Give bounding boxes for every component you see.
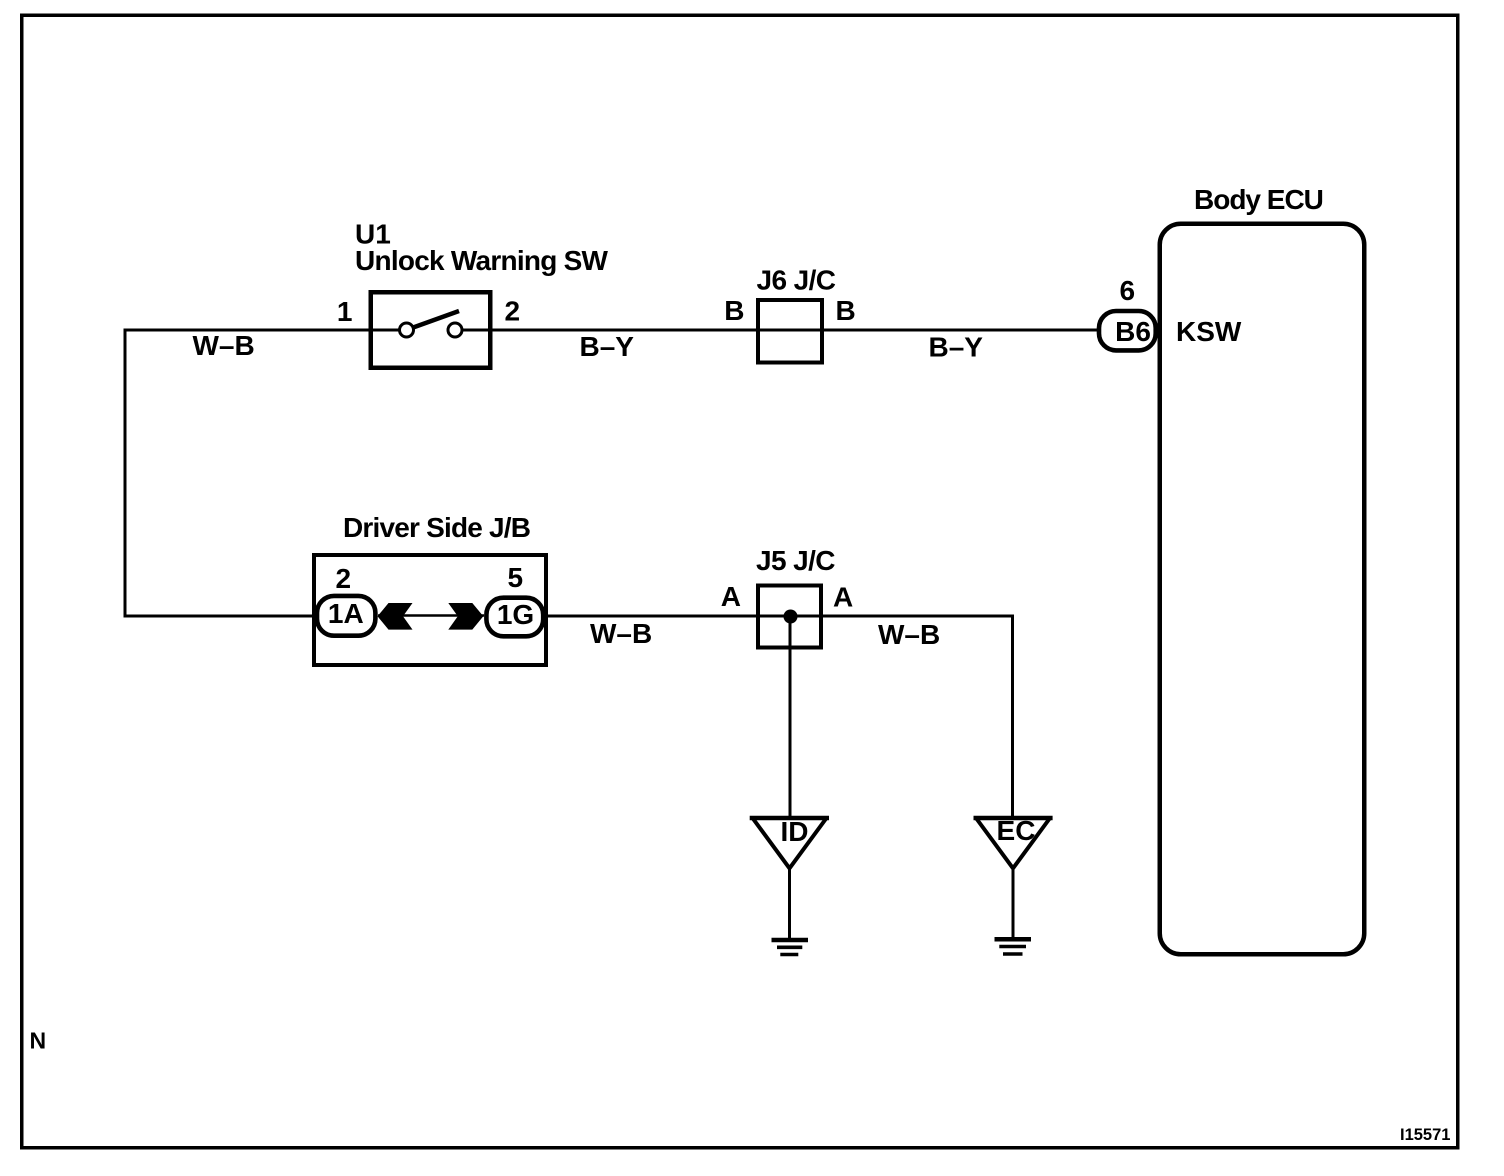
svg-text:EC: EC	[997, 815, 1036, 846]
svg-text:A: A	[721, 581, 741, 612]
svg-text:J5 J/C: J5 J/C	[756, 545, 835, 576]
svg-text:1A: 1A	[328, 598, 364, 629]
svg-text:B–Y: B–Y	[929, 332, 984, 363]
svg-text:I15571: I15571	[1400, 1126, 1450, 1144]
svg-text:Body ECU: Body ECU	[1194, 184, 1323, 215]
svg-text:A: A	[833, 582, 853, 613]
svg-text:KSW: KSW	[1176, 316, 1242, 347]
svg-text:2: 2	[336, 563, 352, 594]
svg-text:B: B	[836, 295, 856, 326]
svg-text:Driver Side J/B: Driver Side J/B	[343, 512, 530, 543]
svg-text:1: 1	[337, 296, 353, 327]
svg-text:N: N	[30, 1028, 47, 1054]
svg-text:1G: 1G	[497, 599, 534, 630]
svg-text:B: B	[724, 295, 744, 326]
svg-text:2: 2	[505, 296, 521, 327]
svg-text:B6: B6	[1115, 316, 1151, 347]
svg-text:5: 5	[508, 562, 524, 593]
svg-text:Unlock Warning SW: Unlock Warning SW	[355, 245, 609, 276]
svg-text:W–B: W–B	[193, 330, 255, 361]
svg-text:ID: ID	[781, 816, 809, 847]
svg-text:J6 J/C: J6 J/C	[757, 265, 836, 296]
svg-text:W–B: W–B	[878, 619, 940, 650]
svg-text:6: 6	[1120, 275, 1136, 306]
svg-text:B–Y: B–Y	[580, 331, 635, 362]
svg-text:W–B: W–B	[590, 618, 652, 649]
